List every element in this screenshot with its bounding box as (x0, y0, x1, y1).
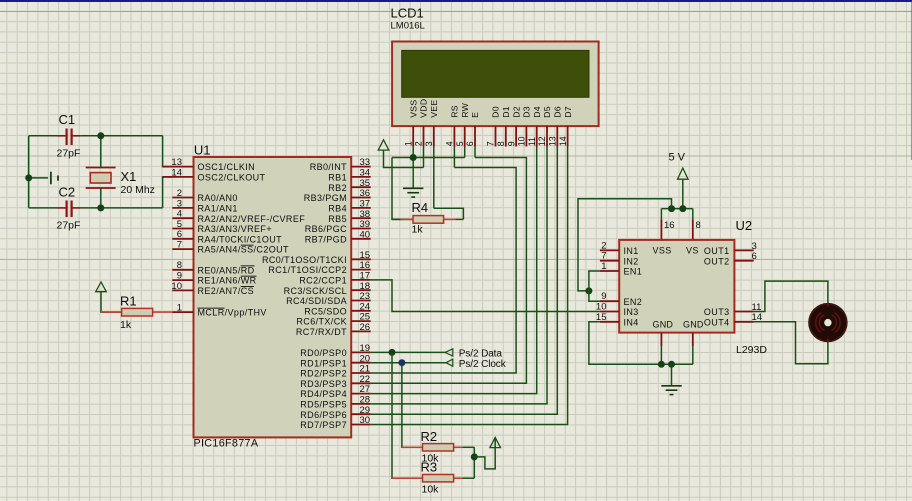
svg-text:16: 16 (664, 220, 675, 231)
junction crystal bottom (97, 204, 104, 211)
wire OUT4 to motor bottom (754, 322, 828, 364)
wire VSS-VS top link (661, 208, 692, 210)
svg-text:OUT4: OUT4 (704, 317, 730, 327)
svg-text:RD5/PSP5: RD5/PSP5 (300, 400, 347, 410)
svg-text:IN4: IN4 (624, 317, 639, 327)
wire LCD E drop (474, 147, 476, 158)
svg-text:1: 1 (403, 141, 413, 146)
svg-text:VSS: VSS (408, 100, 418, 118)
wire RC2 to U2 IN3 (371, 280, 600, 312)
svg-text:12: 12 (537, 136, 547, 146)
svg-text:MCLR/Vpp/THV: MCLR/Vpp/THV (198, 308, 267, 318)
wire R2-R3 right join (473, 447, 475, 478)
junction gnd drop (668, 361, 675, 368)
svg-text:IN2: IN2 (624, 256, 639, 266)
wire pullup net to 5V terminal (474, 439, 495, 469)
junction crystal top (97, 132, 104, 139)
svg-text:RA1/AN1: RA1/AN1 (198, 204, 238, 214)
svg-text:EN2: EN2 (624, 297, 643, 307)
svg-text:1k: 1k (120, 319, 132, 331)
wire crystal top lead (100, 136, 102, 168)
svg-text:D5: D5 (542, 106, 552, 118)
sheet right border (911, 0, 912, 160)
svg-text:27pF: 27pF (57, 220, 81, 232)
svg-text:VEE: VEE (429, 100, 439, 118)
svg-text:2: 2 (177, 188, 182, 199)
svg-text:30: 30 (360, 415, 371, 426)
svg-text:RS: RS (450, 105, 460, 118)
svg-text:RA0/AN0: RA0/AN0 (198, 193, 238, 203)
svg-text:R3: R3 (421, 460, 438, 475)
wire E route to RD3 (371, 158, 527, 384)
svg-text:6: 6 (752, 251, 757, 262)
svg-text:RD3/PSP3: RD3/PSP3 (300, 379, 347, 389)
LCD pin stubs (412, 126, 414, 146)
wire OSC2 connection (163, 177, 173, 208)
wire RD1 Ps/2 Clock (371, 362, 446, 364)
svg-text:RC6/TX/CK: RC6/TX/CK (296, 317, 347, 327)
svg-text:5: 5 (455, 141, 465, 146)
U1 right pin stubs RD (351, 351, 371, 353)
wire U2 pin16 top stub (660, 209, 662, 220)
ground terminal (sideways) at crystal net (29, 177, 48, 179)
svg-text:14: 14 (558, 136, 568, 146)
svg-text:R4: R4 (412, 200, 429, 215)
wire 5V to enable branch (578, 199, 672, 291)
terminal Ps/2 Data arrow (445, 349, 453, 356)
wire OUT3 to motor top (754, 281, 828, 311)
capacitor C1 (57, 135, 66, 137)
major grid lines (6, 0, 8, 501)
svg-text:10: 10 (517, 136, 527, 146)
svg-text:RD7/PSP7: RD7/PSP7 (300, 420, 347, 430)
ground below U2 (661, 385, 681, 387)
svg-text:OSC2/CLKOUT: OSC2/CLKOUT (198, 173, 266, 183)
wire R3 drop from Ps/2 Data (392, 352, 423, 478)
svg-text:VSS: VSS (653, 246, 672, 256)
wire VEE to R4 (434, 208, 464, 219)
svg-text:8: 8 (496, 141, 506, 146)
wire VSS net to R4 left (392, 158, 413, 220)
svg-text:OUT3: OUT3 (704, 307, 730, 317)
svg-text:Ps/2 Clock: Ps/2 Clock (459, 359, 507, 370)
junction R2-R3 (471, 453, 478, 460)
svg-text:20 Mhz: 20 Mhz (121, 184, 155, 196)
wire LCD D4 to RD4 (371, 147, 537, 394)
ground below LCD pin1 (403, 187, 423, 189)
svg-text:RC4/SDI/SDA: RC4/SDI/SDA (286, 296, 347, 306)
svg-text:D6: D6 (553, 106, 563, 118)
junction gnd stub1 (658, 361, 665, 368)
wire RS route to RD2 (371, 168, 516, 374)
svg-text:RC1/T1OSI/CCP2: RC1/T1OSI/CCP2 (268, 265, 347, 275)
svg-text:7: 7 (177, 240, 182, 251)
wire IN4 to ground rail (589, 322, 693, 365)
svg-text:1: 1 (177, 303, 182, 314)
svg-text:X1: X1 (121, 169, 137, 184)
wire C2 bottom horizontal (29, 207, 57, 209)
wire LCD D7 to RD7 (371, 147, 568, 425)
svg-text:U1: U1 (194, 143, 211, 158)
svg-text:GND: GND (653, 320, 674, 330)
svg-text:RB6/PGC: RB6/PGC (305, 224, 347, 234)
motor driver U2 (619, 240, 734, 333)
wire LCD RS drop (453, 147, 455, 168)
junction RD1 pullup (blue) (398, 359, 405, 366)
resistor R2 (402, 446, 423, 448)
svg-text:4: 4 (445, 141, 455, 146)
svg-text:D0: D0 (491, 106, 501, 118)
sheet top border (0, 0, 912, 2)
power terminal 5V at R1 (96, 282, 107, 292)
svg-text:7: 7 (486, 141, 496, 146)
crystal X1 (86, 167, 116, 169)
U2 bottom stub pin4-5 (660, 333, 662, 346)
svg-text:36: 36 (360, 188, 371, 199)
svg-text:D7: D7 (563, 106, 573, 118)
terminal Ps/2 Clock arrow (446, 359, 453, 366)
svg-text:10k: 10k (422, 484, 440, 496)
wire LCD D6 to RD6 (371, 147, 558, 415)
svg-text:D3: D3 (522, 106, 532, 118)
svg-text:RE1/AN6/WR: RE1/AN6/WR (198, 276, 257, 286)
svg-text:RC3/SCK/SCL: RC3/SCK/SCL (284, 286, 347, 296)
svg-text:IN1: IN1 (624, 246, 639, 256)
svg-text:RA2/AN2/VREF-/CVREF: RA2/AN2/VREF-/CVREF (198, 214, 306, 224)
junction 5V branch (668, 205, 675, 212)
svg-text:RD2/PSP2: RD2/PSP2 (300, 369, 347, 379)
svg-text:6: 6 (465, 141, 475, 146)
U1 left pin stubs (163, 166, 194, 168)
svg-text:40: 40 (360, 229, 371, 240)
svg-text:RA5/AN4/SS/C2OUT: RA5/AN4/SS/C2OUT (198, 245, 290, 255)
resistor R4 (392, 218, 401, 220)
wire LCD RW drop (464, 147, 466, 158)
svg-text:LCD1: LCD1 (391, 6, 424, 21)
svg-text:1: 1 (601, 261, 606, 272)
svg-text:RA3/AN3/VREF+: RA3/AN3/VREF+ (198, 224, 272, 234)
wire OSC1 connection (163, 136, 173, 167)
wire C1-C2 left vertical (28, 136, 30, 208)
junction ground stub (25, 174, 32, 181)
motor (808, 303, 847, 342)
sheet inner border line (0, 11, 912, 12)
svg-text:RC7/RX/DT: RC7/RX/DT (296, 327, 347, 337)
svg-text:RB3/PGM: RB3/PGM (304, 193, 347, 203)
svg-text:EN1: EN1 (624, 267, 643, 277)
svg-text:LM016L: LM016L (391, 21, 425, 32)
svg-text:1k: 1k (412, 224, 424, 236)
svg-text:U2: U2 (736, 218, 753, 233)
wire LCD pin3 VEE drop (433, 147, 435, 209)
svg-text:26: 26 (360, 322, 371, 333)
junction EN net (585, 287, 592, 294)
svg-text:10: 10 (171, 281, 182, 292)
svg-text:RB1: RB1 (328, 173, 347, 183)
svg-text:D2: D2 (511, 106, 521, 118)
svg-text:13: 13 (548, 136, 558, 146)
svg-text:5 V: 5 V (669, 152, 686, 164)
svg-text:RD0/PSP0: RD0/PSP0 (300, 348, 347, 358)
wire U2 pin8 top stub (692, 209, 694, 220)
svg-text:D4: D4 (532, 106, 542, 118)
svg-text:14: 14 (171, 167, 182, 178)
junction 5V stem (679, 205, 686, 212)
U2 right pin stubs (734, 249, 753, 251)
svg-text:RB7/PGD: RB7/PGD (305, 234, 347, 244)
LCD LM016L body (392, 42, 598, 127)
svg-text:8: 8 (696, 220, 701, 231)
svg-text:OUT2: OUT2 (704, 256, 730, 266)
svg-text:IN3: IN3 (624, 307, 639, 317)
svg-text:RB0/INT: RB0/INT (310, 162, 347, 172)
LCD screen (402, 50, 589, 97)
svg-text:D1: D1 (501, 106, 511, 118)
svg-text:RE0/AN5/RD: RE0/AN5/RD (198, 265, 255, 275)
svg-text:OUT1: OUT1 (704, 246, 730, 256)
wire C1 top horizontal (29, 135, 57, 137)
PIC microcontroller U1 (194, 157, 352, 437)
svg-text:9: 9 (506, 141, 516, 146)
junction VSS net (410, 154, 417, 161)
svg-text:R1: R1 (120, 294, 137, 309)
svg-text:RE2/AN7/CS: RE2/AN7/CS (198, 286, 255, 296)
U2 left pin stubs (600, 249, 619, 251)
svg-text:OSC1/CLKIN: OSC1/CLKIN (198, 162, 256, 172)
wire ground drop (671, 364, 673, 385)
svg-text:RC0/T1OSO/T1CKI: RC0/T1OSO/T1CKI (262, 255, 347, 265)
wire R2 drop from Ps/2 Clock (402, 363, 423, 448)
svg-text:27pF: 27pF (57, 148, 81, 160)
svg-text:RB2: RB2 (328, 183, 347, 193)
power terminal at LCD VDD (378, 140, 389, 150)
wire VDD power stem (384, 150, 424, 167)
svg-text:11: 11 (527, 137, 537, 146)
svg-text:RA4/T0CKI/C1OUT: RA4/T0CKI/C1OUT (198, 234, 283, 244)
wire VSS-RW horizontal (392, 157, 465, 159)
svg-text:RB4: RB4 (328, 204, 347, 214)
svg-text:RC5/SDO: RC5/SDO (304, 306, 347, 316)
svg-text:L293D: L293D (736, 344, 767, 356)
wire LCD pin2 VDD drop (423, 147, 425, 168)
resistor R1 (101, 311, 122, 313)
wire RD0 Ps/2 Data (371, 351, 445, 353)
junction RD0 pullup (389, 349, 396, 356)
wire EN1-EN2 tie (589, 271, 600, 301)
resistor R3 (392, 477, 423, 479)
svg-text:C1: C1 (59, 112, 76, 127)
wire R1 power stem (101, 292, 122, 312)
wire crystal bottom lead (100, 188, 102, 208)
capacitor C2 (57, 207, 66, 209)
svg-text:E: E (470, 112, 480, 118)
U1 right pin stubs RB (351, 166, 371, 168)
svg-text:RD1/PSP1: RD1/PSP1 (300, 358, 347, 368)
svg-text:C2: C2 (59, 185, 76, 200)
svg-text:VDD: VDD (419, 99, 429, 118)
svg-text:RW: RW (460, 102, 470, 117)
svg-text:GND: GND (683, 320, 704, 330)
power terminal 5V main (678, 168, 689, 179)
svg-text:2: 2 (414, 141, 424, 146)
svg-text:R2: R2 (421, 429, 438, 444)
svg-text:RC2/CCP1: RC2/CCP1 (299, 276, 347, 286)
svg-text:Ps/2 Data: Ps/2 Data (459, 348, 503, 359)
svg-text:VS: VS (686, 246, 699, 256)
wire 5V stem (682, 179, 684, 208)
svg-text:RB5: RB5 (328, 214, 347, 224)
svg-text:RD6/PSP6: RD6/PSP6 (300, 410, 347, 420)
svg-text:3: 3 (424, 141, 434, 146)
svg-text:RD4/PSP4: RD4/PSP4 (300, 389, 347, 399)
svg-text:PIC16F877A: PIC16F877A (194, 437, 259, 449)
U2 bottom stub pin12-13 (692, 333, 694, 346)
power terminal 5V at pullups (490, 437, 501, 447)
U1 right pin stubs RC (351, 258, 371, 260)
wire LCD D5 to RD5 (371, 147, 547, 404)
wire LCD pin1 VSS drop (412, 147, 414, 188)
